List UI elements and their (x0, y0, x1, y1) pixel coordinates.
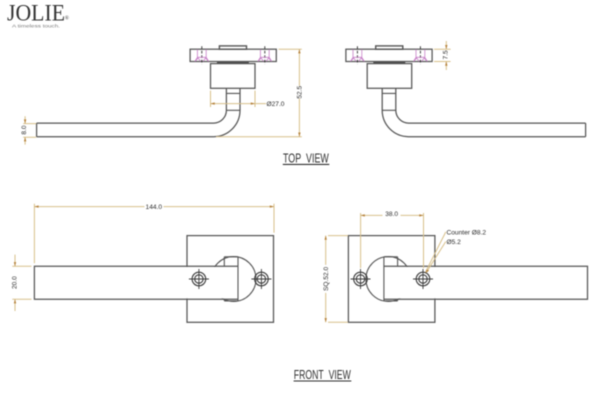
svg-text:7.5: 7.5 (443, 50, 450, 59)
dimension SQ.52.0 dimension line (325, 236, 327, 323)
dimension 144.0 arrows (34, 205, 274, 207)
dimension 7.5 arrows (445, 45, 447, 66)
dimension 8.0 dimension line (24, 116, 26, 144)
front view left handle body (34, 236, 273, 323)
svg-text:20.0: 20.0 (12, 276, 19, 289)
svg-text:®: ® (65, 15, 70, 22)
dimension SQ.52.0 extension lines (328, 236, 348, 323)
svg-text:TOP VIEW: TOP VIEW (283, 151, 329, 165)
front view right handle body (348, 236, 587, 323)
leader line D5.2 (427, 242, 446, 273)
top view right handle body (346, 46, 586, 137)
svg-text:Counter Ø8.2: Counter Ø8.2 (447, 229, 487, 236)
svg-text:Ø5.2: Ø5.2 (447, 239, 462, 246)
dimension 144.0 extension lines (34, 204, 274, 263)
dimension 38.0 dimension line (361, 214, 424, 216)
dimension 38.0 extension lines (361, 213, 424, 268)
dimension 7.5 extension lines (434, 49, 451, 61)
label TOP VIEW underline (283, 163, 330, 165)
svg-text:52.5: 52.5 (296, 85, 303, 98)
dimension 20.0 dimension line (14, 255, 16, 311)
svg-text:FRONT VIEW: FRONT VIEW (294, 368, 351, 382)
dimension 7.5 dimension line (445, 41, 447, 70)
top view left handle body (37, 46, 277, 137)
dimension 52.5 dimension line (298, 49, 300, 137)
svg-text:38.0: 38.0 (385, 211, 398, 218)
dimension 52.5 arrows (298, 49, 300, 137)
dimension D27 extension lines (211, 91, 256, 107)
label FRONT VIEW underline (294, 380, 352, 382)
dimension 38.0 arrows (361, 214, 424, 216)
svg-text:JOLIE: JOLIE (7, 1, 65, 26)
svg-text:SQ.52.0: SQ.52.0 (323, 266, 330, 291)
leader arrow D5.2 (426, 270, 429, 273)
dimension 20.0 arrows (14, 262, 16, 303)
dimension SQ.52.0 arrows (325, 236, 327, 323)
dimension 144.0 dimension line (34, 206, 274, 208)
svg-text:A timeless touch.: A timeless touch. (12, 23, 60, 28)
svg-text:8.0: 8.0 (21, 125, 28, 134)
leader arrow Counter D8.2 (426, 270, 429, 273)
leader line Counter D8.2 (426, 232, 446, 272)
svg-text:144.0: 144.0 (146, 204, 163, 211)
dimension 52.5 extension lines (216, 49, 302, 137)
svg-text:Ø27.0: Ø27.0 (267, 101, 285, 108)
dimension 8.0 extension lines (23, 124, 36, 138)
dimension D27 dimension line (211, 103, 267, 105)
dimension 20.0 extension lines (12, 266, 31, 299)
dimension 8.0 arrows (24, 119, 26, 141)
dimension D27 arrows (211, 102, 256, 104)
